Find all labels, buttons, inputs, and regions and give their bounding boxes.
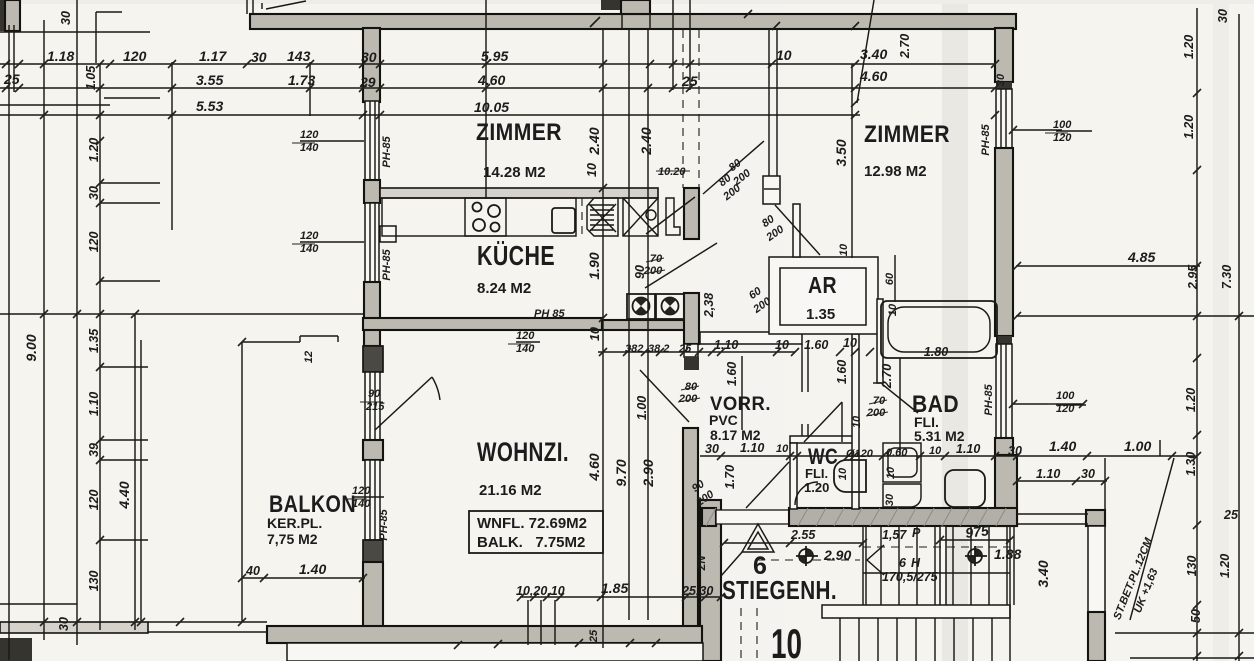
svg-text:10: 10	[838, 243, 850, 256]
svg-text:140: 140	[300, 243, 319, 255]
svg-text:5.53: 5.53	[196, 98, 223, 114]
svg-text:1.20: 1.20	[1182, 115, 1196, 139]
svg-text:ZN: ZN	[696, 555, 708, 572]
svg-text:29: 29	[359, 74, 376, 90]
svg-text:9.00: 9.00	[23, 334, 39, 361]
svg-text:1.17: 1.17	[199, 48, 227, 64]
svg-text:10: 10	[776, 443, 789, 455]
svg-text:1.20: 1.20	[1218, 554, 1232, 578]
svg-text:1.20: 1.20	[87, 138, 101, 162]
svg-text:170,5/275: 170,5/275	[882, 570, 939, 584]
svg-text:2.95: 2.95	[1186, 264, 1200, 290]
svg-text:1.10: 1.10	[1036, 467, 1060, 481]
svg-text:BALK. 7.75M2: BALK. 7.75M2	[477, 534, 585, 551]
svg-text:1.80: 1.80	[924, 345, 948, 359]
svg-text:120: 120	[300, 230, 319, 242]
svg-text:2.55: 2.55	[790, 528, 816, 542]
svg-text:30: 30	[251, 49, 267, 65]
svg-text:1.00: 1.00	[1124, 438, 1151, 454]
svg-text:38 2: 38 2	[648, 343, 669, 355]
svg-text:25: 25	[3, 71, 20, 87]
svg-text:2,38: 2,38	[702, 293, 716, 318]
svg-text:100: 100	[1056, 390, 1075, 402]
svg-text:3.40: 3.40	[860, 46, 887, 62]
svg-text:1.60: 1.60	[804, 338, 828, 352]
svg-text:10: 10	[843, 336, 857, 350]
svg-text:30: 30	[59, 11, 73, 25]
svg-text:30: 30	[884, 493, 896, 506]
svg-text:BALKON: BALKON	[269, 491, 356, 518]
svg-text:1.20: 1.20	[1184, 388, 1198, 412]
svg-text:3.50: 3.50	[833, 139, 849, 166]
svg-text:1.40: 1.40	[1049, 438, 1076, 454]
svg-text:120: 120	[300, 129, 319, 141]
svg-text:4.60: 4.60	[477, 72, 505, 88]
svg-text:1.00: 1.00	[635, 396, 649, 420]
svg-text:10: 10	[771, 620, 802, 661]
svg-text:12.98 M2: 12.98 M2	[864, 163, 927, 180]
svg-text:AR: AR	[808, 272, 837, 298]
svg-text:1.85: 1.85	[601, 580, 628, 596]
svg-text:1.35: 1.35	[806, 306, 835, 323]
svg-text:7,75 M2: 7,75 M2	[267, 531, 318, 547]
svg-text:12: 12	[303, 351, 315, 363]
svg-text:25: 25	[678, 343, 692, 355]
svg-text:10: 10	[885, 466, 897, 479]
svg-text:PH-85: PH-85	[980, 124, 992, 156]
svg-text:120: 120	[1053, 132, 1072, 144]
svg-text:10.20: 10.20	[658, 166, 686, 178]
svg-text:WNFL. 72.69M2: WNFL. 72.69M2	[477, 515, 587, 532]
svg-text:30: 30	[1008, 444, 1022, 458]
svg-text:130: 130	[1185, 556, 1199, 577]
svg-text:10: 10	[851, 415, 863, 428]
svg-text:2.90: 2.90	[640, 459, 656, 487]
svg-text:10: 10	[585, 163, 599, 177]
svg-text:120: 120	[123, 48, 147, 64]
svg-text:120: 120	[87, 232, 101, 253]
svg-text:1.10: 1.10	[87, 392, 101, 416]
svg-text:10.05: 10.05	[474, 99, 509, 115]
svg-text:120: 120	[516, 330, 535, 342]
svg-text:10: 10	[588, 327, 602, 341]
svg-text:PH-85: PH-85	[983, 384, 995, 416]
svg-text:25: 25	[588, 629, 600, 643]
svg-text:50: 50	[1189, 609, 1203, 623]
svg-text:4.60: 4.60	[586, 453, 602, 481]
svg-text:30: 30	[1216, 9, 1230, 23]
svg-text:30: 30	[87, 186, 101, 200]
svg-text:2.40: 2.40	[586, 127, 602, 155]
svg-text:25,30: 25,30	[681, 584, 713, 598]
svg-text:ZIMMER: ZIMMER	[864, 121, 950, 148]
svg-text:39: 39	[87, 443, 101, 457]
svg-text:10: 10	[929, 445, 942, 457]
svg-text:1.18: 1.18	[47, 48, 74, 64]
svg-text:PH-85: PH-85	[381, 136, 393, 168]
svg-text:21.16 M2: 21.16 M2	[479, 482, 542, 499]
svg-text:30: 30	[995, 73, 1007, 86]
svg-text:10: 10	[887, 303, 899, 316]
svg-text:PH-85: PH-85	[381, 249, 393, 281]
svg-text:4.60: 4.60	[859, 68, 887, 84]
svg-text:P: P	[912, 526, 921, 540]
svg-text:1.88: 1.88	[994, 546, 1021, 562]
svg-text:10: 10	[776, 47, 792, 63]
svg-text:30: 30	[57, 617, 71, 631]
svg-text:1.10: 1.10	[956, 442, 980, 456]
svg-text:5.31 M2: 5.31 M2	[914, 428, 965, 444]
svg-text:1.60: 1.60	[725, 362, 739, 386]
svg-text:6: 6	[753, 552, 767, 580]
svg-text:120: 120	[1056, 403, 1075, 415]
svg-text:10,20,10: 10,20,10	[516, 584, 565, 598]
svg-text:90: 90	[368, 388, 381, 400]
svg-text:1.35: 1.35	[87, 328, 101, 353]
svg-text:1.40: 1.40	[299, 561, 326, 577]
svg-text:STIEGENH.: STIEGENH.	[722, 575, 837, 605]
svg-text:30: 30	[705, 442, 719, 456]
svg-text:10: 10	[775, 338, 789, 352]
svg-text:4.85: 4.85	[1127, 249, 1155, 265]
svg-text:2.90: 2.90	[823, 547, 851, 563]
svg-text:10: 10	[837, 467, 849, 480]
svg-text:8.17 M2: 8.17 M2	[710, 427, 761, 443]
svg-text:1.90: 1.90	[586, 252, 602, 279]
svg-text:9.70: 9.70	[613, 459, 629, 486]
svg-text:1.60: 1.60	[835, 360, 849, 384]
svg-text:KÜCHE: KÜCHE	[477, 240, 555, 271]
svg-text:100: 100	[1053, 119, 1072, 131]
svg-text:130: 130	[87, 571, 101, 592]
svg-text:382: 382	[625, 343, 643, 355]
svg-text:0.60: 0.60	[886, 447, 908, 459]
svg-text:ZIMMER: ZIMMER	[476, 119, 562, 146]
svg-text:5.95: 5.95	[481, 48, 508, 64]
svg-text:8.24 M2: 8.24 M2	[477, 280, 531, 297]
svg-text:1.30: 1.30	[1184, 452, 1198, 476]
svg-text:3.55: 3.55	[196, 72, 223, 88]
svg-text:30: 30	[1081, 467, 1095, 481]
svg-text:KER.PL.: KER.PL.	[267, 515, 322, 531]
svg-text:40: 40	[245, 564, 260, 578]
svg-text:1.20: 1.20	[804, 480, 829, 495]
svg-text:7.30: 7.30	[1220, 265, 1234, 289]
svg-text:FLI.: FLI.	[805, 466, 828, 481]
svg-text:Ø120: Ø120	[846, 448, 874, 460]
svg-text:4.40: 4.40	[116, 481, 132, 509]
svg-text:25: 25	[1223, 508, 1239, 522]
svg-text:2.70: 2.70	[898, 34, 912, 59]
svg-text:975: 975	[964, 522, 989, 541]
svg-text:215: 215	[365, 401, 385, 413]
svg-text:2.40: 2.40	[638, 127, 654, 155]
svg-text:1.10: 1.10	[740, 441, 764, 455]
svg-text:1.10: 1.10	[714, 338, 738, 352]
svg-text:2.70: 2.70	[880, 364, 894, 389]
svg-text:1,57: 1,57	[882, 528, 907, 542]
svg-text:140: 140	[300, 142, 319, 154]
svg-text:25: 25	[681, 73, 698, 89]
svg-text:143: 143	[287, 48, 311, 64]
svg-text:140: 140	[516, 343, 535, 355]
svg-text:14.28 M2: 14.28 M2	[483, 164, 546, 181]
svg-text:WOHNZI.: WOHNZI.	[477, 437, 569, 467]
svg-text:1.05: 1.05	[84, 65, 98, 90]
svg-text:3.40: 3.40	[1035, 560, 1051, 587]
svg-text:PVC: PVC	[709, 412, 738, 428]
svg-text:6: 6	[899, 556, 907, 570]
svg-text:1.20: 1.20	[1182, 35, 1196, 59]
svg-text:60: 60	[884, 272, 896, 285]
svg-text:30: 30	[361, 49, 377, 65]
svg-text:120: 120	[87, 490, 101, 511]
svg-text:H: H	[911, 556, 921, 570]
svg-text:PH-85: PH-85	[378, 509, 390, 541]
svg-text:1.70: 1.70	[723, 465, 737, 489]
svg-text:PH 85: PH 85	[534, 308, 565, 320]
svg-text:1.73: 1.73	[288, 72, 315, 88]
